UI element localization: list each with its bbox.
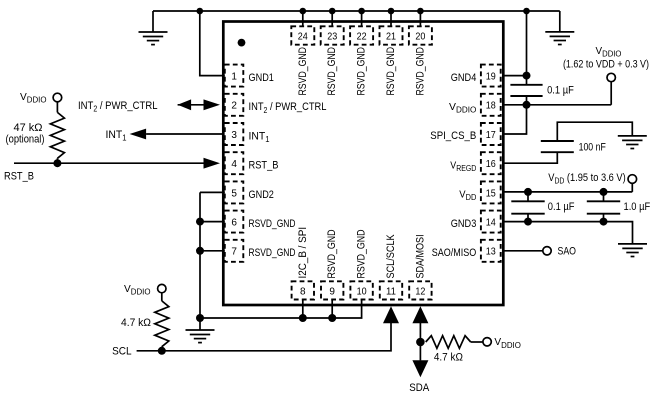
junction rail / bottom bus bbox=[196, 314, 204, 322]
svg-text:18: 18 bbox=[486, 101, 496, 112]
svg-text:4.7 kΩ: 4.7 kΩ bbox=[434, 351, 463, 363]
pin 13 box bbox=[481, 240, 501, 262]
wire INT1 bbox=[146, 133, 223, 135]
svg-text:7: 7 bbox=[231, 247, 237, 258]
wire C4 top stub bbox=[603, 192, 605, 201]
junction SDA / R3 bbox=[416, 338, 425, 347]
svg-text:17: 17 bbox=[486, 130, 496, 141]
svg-text:RSVD_GND: RSVD_GND bbox=[414, 47, 426, 96]
svg-text:INT2 / PWR_CTRL: INT2 / PWR_CTRL bbox=[78, 100, 158, 114]
junction pin 15 / C3 bbox=[524, 188, 532, 196]
wire C1 to pin 18 net bbox=[526, 96, 528, 105]
svg-text:3: 3 bbox=[231, 130, 237, 141]
capacitor C2 100nF bbox=[541, 141, 574, 152]
pin 19 box bbox=[481, 65, 501, 87]
svg-text:0.1 µF: 0.1 µF bbox=[548, 201, 575, 213]
resistor R1 47k bbox=[50, 112, 64, 158]
pin 21 box bbox=[380, 26, 403, 44]
svg-text:RSVD_GND: RSVD_GND bbox=[249, 247, 296, 259]
arrow left INT1 bbox=[130, 129, 147, 140]
pin 9 box bbox=[321, 281, 343, 299]
wire pin 7 bbox=[200, 250, 225, 252]
pin 18 box bbox=[481, 94, 501, 116]
svg-text:RSVD_GND: RSVD_GND bbox=[297, 47, 309, 96]
wire pin 18 VDDIO bbox=[503, 104, 611, 106]
wire pin 16 VREGD to C2 bbox=[503, 152, 557, 163]
svg-text:2: 2 bbox=[231, 101, 237, 112]
wire stub to pin 24 bbox=[302, 11, 304, 26]
pin 23 box bbox=[321, 26, 344, 44]
wire ground stub top-right bbox=[559, 11, 561, 32]
pin 3 box bbox=[225, 123, 244, 145]
svg-text:SAO: SAO bbox=[558, 245, 577, 257]
arrow SDA down bbox=[412, 360, 428, 377]
junction bus pin 8 bbox=[299, 314, 307, 322]
wire top net down to C1 bbox=[526, 11, 528, 85]
terminal VDDIO supply bbox=[607, 73, 615, 81]
terminal VDDIO (SDA pull-up) bbox=[483, 338, 491, 346]
junction top net right branch bbox=[523, 8, 530, 15]
junction bus pin 9 bbox=[328, 314, 336, 322]
wire pin 5 GND2 bbox=[200, 191, 225, 193]
wire C3 top stub bbox=[527, 192, 529, 201]
svg-text:20: 20 bbox=[415, 31, 425, 42]
wire ground stub top-left bbox=[152, 11, 154, 32]
svg-text:8: 8 bbox=[300, 286, 306, 297]
svg-text:SCL/SCLK: SCL/SCLK bbox=[385, 234, 397, 278]
svg-text:SDA/MOSI: SDA/MOSI bbox=[414, 234, 426, 278]
pin 8 box bbox=[292, 281, 314, 299]
ground C2 bbox=[618, 136, 647, 149]
junction pin 19 / C1 bbox=[523, 72, 531, 80]
wire stub to pin 21 bbox=[390, 11, 392, 26]
svg-text:24: 24 bbox=[298, 31, 308, 42]
svg-text:19: 19 bbox=[486, 72, 496, 83]
pin 2 box bbox=[225, 94, 244, 116]
ground top-right bbox=[545, 32, 574, 45]
svg-text:GND2: GND2 bbox=[249, 189, 274, 201]
wire SDA shaft bbox=[419, 323, 421, 361]
terminal VDDIO (47k pull-up) bbox=[53, 93, 62, 102]
junction pin 14 / C4 bbox=[600, 218, 608, 226]
junction top net pin 21 bbox=[388, 8, 395, 15]
IC body U1 bbox=[223, 22, 503, 306]
svg-text:16: 16 bbox=[486, 159, 496, 170]
terminal VDDIO (SCL pull-up) bbox=[158, 284, 166, 292]
ground bottom-left rail bbox=[186, 330, 215, 343]
wire ground rail left bbox=[199, 192, 201, 330]
capacitor C1 0.1uF bbox=[510, 85, 542, 96]
svg-text:GND4: GND4 bbox=[451, 72, 477, 84]
svg-text:RST_B: RST_B bbox=[249, 160, 279, 172]
svg-text:GND3: GND3 bbox=[451, 218, 477, 230]
junction top net pin 23 bbox=[329, 8, 336, 15]
pin 22 box bbox=[350, 26, 373, 44]
svg-text:SPI_CS_B: SPI_CS_B bbox=[430, 130, 476, 142]
svg-text:RST_B: RST_B bbox=[4, 171, 34, 183]
svg-text:INT2 / PWR_CTRL: INT2 / PWR_CTRL bbox=[249, 101, 327, 115]
wire C4 bottom stub bbox=[603, 214, 605, 222]
pin 12 box bbox=[409, 281, 431, 299]
wire VDD terminal to pin 15 net bbox=[631, 183, 633, 192]
svg-text:RSVD_GND: RSVD_GND bbox=[385, 47, 397, 96]
wire R2 to SCL bbox=[161, 347, 163, 351]
arrow SDA into pin 12 bbox=[412, 306, 428, 323]
pin 10 box bbox=[350, 281, 372, 299]
capacitor C3 0.1uF bbox=[511, 201, 544, 213]
pin 4 box bbox=[225, 152, 244, 174]
svg-text:0.1 µF: 0.1 µF bbox=[547, 85, 574, 97]
svg-text:GND1: GND1 bbox=[249, 72, 274, 84]
wire stub pin 9 bbox=[331, 300, 333, 319]
pin 15 box bbox=[481, 181, 501, 203]
terminal VDD supply bbox=[628, 175, 637, 184]
wire RST_B bbox=[14, 162, 204, 164]
junction pin 14 / C3 bbox=[524, 218, 532, 226]
arrow right INT2 into pin 2 bbox=[204, 99, 221, 110]
wire pin 13 SAO/MISO bbox=[503, 250, 543, 252]
junction top net pin 24 bbox=[300, 8, 307, 15]
pin 11 box bbox=[380, 281, 402, 299]
ground top-left bbox=[139, 32, 168, 45]
svg-text:SDA: SDA bbox=[409, 382, 430, 394]
junction R1 / RST_B bbox=[53, 159, 61, 167]
resistor R2 4.7k bbox=[155, 301, 169, 347]
junction pin 18 / C1 / pin 17 bbox=[523, 101, 531, 109]
svg-text:RSVD_GND: RSVD_GND bbox=[356, 229, 368, 278]
wire to VDDIO terminal bbox=[610, 82, 612, 105]
pin 16 box bbox=[481, 152, 501, 174]
pin 1 indicator dot bbox=[238, 39, 246, 47]
svg-text:SAO/MISO: SAO/MISO bbox=[432, 247, 477, 259]
svg-text:9: 9 bbox=[329, 286, 335, 297]
wire pin 19 GND4 bbox=[503, 75, 526, 77]
svg-text:RSVD_GND: RSVD_GND bbox=[326, 47, 338, 96]
terminal SAO bbox=[543, 247, 551, 255]
wire INT2 shaft bbox=[178, 104, 204, 106]
svg-text:10: 10 bbox=[357, 286, 367, 297]
svg-text:4: 4 bbox=[231, 159, 237, 170]
svg-text:22: 22 bbox=[357, 31, 367, 42]
svg-text:I2C_B / SPI: I2C_B / SPI bbox=[297, 227, 309, 279]
svg-text:(optional): (optional) bbox=[6, 134, 45, 146]
svg-text:12: 12 bbox=[415, 286, 425, 297]
junction top net pin 20 bbox=[417, 8, 424, 15]
wire pin 17 SPI_CS_B to VDDIO net bbox=[503, 105, 526, 134]
arrow SCL into pin 11 bbox=[383, 306, 399, 323]
pin 7 box bbox=[225, 240, 244, 262]
svg-text:15: 15 bbox=[486, 188, 496, 199]
svg-text:100 nF: 100 nF bbox=[579, 141, 607, 153]
svg-text:23: 23 bbox=[327, 31, 337, 42]
junction pin 15 / C4 bbox=[600, 188, 608, 196]
wire R3 to terminal bbox=[471, 341, 483, 343]
junction top net pin 22 bbox=[358, 8, 365, 15]
svg-text:5: 5 bbox=[231, 188, 237, 199]
pin 6 box bbox=[225, 211, 244, 233]
wire top ground net bbox=[153, 10, 560, 12]
pin 1 box bbox=[225, 65, 244, 87]
pin 20 box bbox=[409, 26, 432, 44]
pin 5 box bbox=[225, 181, 244, 203]
wire bottom gnd bus to pin 10 bbox=[200, 300, 362, 319]
svg-text:47 kΩ: 47 kΩ bbox=[14, 122, 43, 134]
arrow left INT2 bbox=[178, 99, 192, 110]
svg-text:6: 6 bbox=[231, 218, 237, 229]
svg-text:11: 11 bbox=[386, 286, 396, 297]
ground GND3 bbox=[618, 244, 647, 257]
wire pin 15 VDD bbox=[503, 191, 632, 193]
wire SCL bbox=[137, 323, 391, 351]
wire stub to pin 23 bbox=[331, 11, 333, 26]
wire VDDIO to R2 bbox=[161, 293, 163, 301]
junction rail pin 7 bbox=[196, 247, 204, 255]
wire stub to pin 22 bbox=[361, 11, 363, 26]
svg-text:4.7 kΩ: 4.7 kΩ bbox=[121, 317, 151, 329]
svg-text:21: 21 bbox=[386, 31, 396, 42]
wire C2 to ground bbox=[557, 122, 632, 141]
wire R1 to RST_B line bbox=[56, 158, 58, 163]
wire C3 bottom stub bbox=[527, 214, 529, 222]
junction rail pin 6 bbox=[196, 218, 204, 226]
resistor R3 4.7k bbox=[426, 336, 471, 349]
junction SCL / R2 bbox=[158, 347, 166, 355]
svg-text:13: 13 bbox=[486, 247, 496, 258]
svg-text:SCL: SCL bbox=[112, 346, 132, 358]
wire pin 14 GND3 bbox=[503, 222, 632, 244]
pin 14 box bbox=[481, 211, 501, 233]
svg-text:(1.62 to VDD + 0.3 V): (1.62 to VDD + 0.3 V) bbox=[563, 59, 649, 71]
capacitor C4 1.0uF bbox=[587, 201, 620, 213]
svg-text:1.0 µF: 1.0 µF bbox=[624, 201, 651, 213]
pin 24 box bbox=[291, 26, 314, 44]
wire top net to pin 1 bbox=[200, 11, 225, 76]
svg-text:14: 14 bbox=[486, 218, 496, 229]
wire VDDIO to R1 bbox=[56, 102, 58, 113]
svg-text:RSVD_GND: RSVD_GND bbox=[356, 47, 368, 96]
arrow into pin 4 RST_B bbox=[204, 158, 221, 169]
wire stub to pin 20 bbox=[419, 11, 421, 26]
pin 17 box bbox=[481, 123, 501, 145]
wire stub pin 8 bbox=[302, 300, 304, 319]
svg-text:RSVD_GND: RSVD_GND bbox=[249, 218, 296, 230]
svg-text:RSVD_GND: RSVD_GND bbox=[326, 229, 338, 278]
wire pin 6 bbox=[200, 221, 225, 223]
junction top net / pin1 branch bbox=[197, 8, 204, 15]
svg-text:1: 1 bbox=[231, 72, 237, 83]
